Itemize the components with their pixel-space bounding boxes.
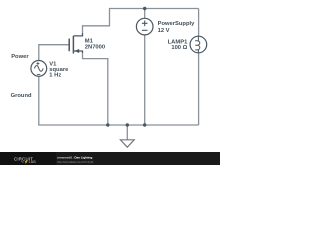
wire PowerSupply bottom lead to rail bbox=[144, 35, 146, 125]
transistor M1 channel bar bbox=[72, 36, 74, 54]
svg-text:12 V: 12 V bbox=[158, 28, 170, 34]
junction dot top rail / PowerSupply bbox=[143, 7, 146, 10]
svg-text:Power: Power bbox=[11, 54, 29, 60]
svg-text:http://circuitlab.com/c/7vfy34: http://circuitlab.com/c/7vfy34 bbox=[57, 160, 94, 164]
power supply U PowerSupply circle bbox=[136, 18, 153, 35]
lamp LAMP1 circle bbox=[190, 36, 207, 53]
junction dot bottom rail / PowerSupply bottom bbox=[143, 123, 146, 126]
svg-text:PowerSupply: PowerSupply bbox=[158, 21, 195, 27]
wire LAMP1 bottom lead bbox=[198, 53, 200, 125]
wire gate from node Power corner to M1 gate bbox=[39, 45, 69, 61]
transistor M1 source stub bbox=[73, 51, 82, 53]
PowerSupply plus sign bbox=[142, 21, 148, 27]
junction dot bottom rail / ground bbox=[126, 123, 129, 126]
ground symbol stem bbox=[126, 125, 128, 140]
wire PowerSupply top lead bbox=[144, 9, 146, 19]
wire M1 drain to top rail bbox=[83, 9, 199, 34]
svg-text:∿⚡LAB: ∿⚡LAB bbox=[21, 159, 36, 164]
svg-text:Ground: Ground bbox=[11, 93, 32, 99]
PowerSupply minus sign bbox=[142, 29, 148, 31]
wire LAMP1 top lead bbox=[198, 9, 200, 37]
V1 minus sign bbox=[37, 73, 40, 75]
wire V1 bottom to ground rail bbox=[39, 76, 108, 125]
LAMP1 filament bbox=[195, 36, 200, 53]
V1 sine wave bbox=[34, 66, 43, 72]
transistor M1 drain stub bbox=[73, 33, 82, 36]
V1 plus sign bbox=[36, 62, 39, 65]
junction dot bottom rail / M1 source bbox=[106, 123, 109, 126]
svg-text:100 Ω: 100 Ω bbox=[171, 45, 187, 51]
transistor M1 source arrow bbox=[74, 49, 79, 53]
ground symbol triangle bbox=[120, 140, 134, 147]
voltage source V1 circle bbox=[31, 61, 47, 77]
wire bottom rail right section bbox=[108, 124, 199, 126]
svg-text:1 Hz: 1 Hz bbox=[49, 73, 61, 79]
wire M1 source to bottom rail bbox=[83, 53, 108, 125]
svg-text:2N7000: 2N7000 bbox=[85, 45, 105, 51]
footer watermark bar bbox=[0, 152, 220, 165]
transistor Q M1 2N7000 gate bar bbox=[68, 39, 70, 52]
